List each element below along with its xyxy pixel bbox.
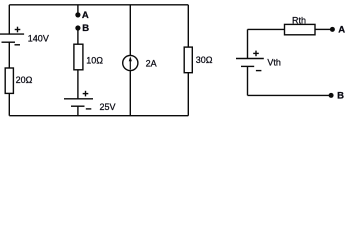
wire left branch upper (to 140V battery) <box>8 5 10 34</box>
wire bottom of main circuit <box>9 115 188 117</box>
battery V1 140V long plate <box>0 33 24 35</box>
wire stub node B to 10 ohm resistor <box>77 29 79 44</box>
svg-text:A: A <box>338 25 345 36</box>
wire thevenin top right to terminal A <box>315 28 331 30</box>
wire left branch lower (resistor to bottom) <box>8 93 10 115</box>
battery V2 25V long plate <box>64 98 93 100</box>
battery V1 plus sign <box>15 29 21 31</box>
svg-text:30Ω: 30Ω <box>196 55 213 65</box>
wire thevenin left (top corner to Vth) <box>247 29 249 58</box>
svg-text:Rth: Rth <box>292 15 306 25</box>
node A dot <box>75 12 80 17</box>
resistor 10 ohm body <box>74 44 83 70</box>
battery Vth plus sign <box>253 52 259 54</box>
svg-text:10Ω: 10Ω <box>86 56 103 66</box>
wire top of main circuit <box>9 4 188 6</box>
svg-text:A: A <box>82 10 89 21</box>
svg-text:140V: 140V <box>28 34 49 44</box>
terminal A dot <box>330 27 335 32</box>
svg-text:B: B <box>82 23 89 34</box>
resistor 20 ohm body <box>5 68 13 93</box>
wire thevenin left lower (Vth to bottom) <box>247 66 249 95</box>
svg-text:2A: 2A <box>146 58 157 68</box>
battery Vth short plate <box>241 65 254 67</box>
battery Vth long plate <box>236 58 264 60</box>
battery Vth minus sign <box>256 70 262 72</box>
resistor 30 ohm body <box>184 47 192 73</box>
resistor Rth body <box>285 24 316 34</box>
svg-text:Vth: Vth <box>267 58 281 68</box>
svg-text:B: B <box>337 91 344 102</box>
svg-text:20Ω: 20Ω <box>16 75 33 85</box>
wire left branch middle (battery to 20 ohm resistor) <box>8 42 10 68</box>
wire thevenin bottom to terminal B <box>248 94 330 96</box>
wire thevenin top left <box>248 28 285 30</box>
svg-text:25V: 25V <box>100 102 116 112</box>
current source I1 circle <box>123 55 138 70</box>
node B dot <box>75 25 80 30</box>
battery V1 minus sign <box>15 44 21 46</box>
wire 10 ohm resistor to 25V battery <box>77 70 79 99</box>
battery V2 25V short plate <box>71 105 85 107</box>
battery V2 plus sign <box>83 93 89 95</box>
current source I1 arrow <box>129 56 132 69</box>
wire right branch lower <box>187 73 189 116</box>
wire current source branch lower <box>129 71 131 116</box>
wire 25V battery to bottom <box>77 106 79 116</box>
battery V1 140V short plate <box>2 41 16 43</box>
battery V2 minus sign <box>86 108 92 110</box>
wire right branch upper <box>187 5 189 47</box>
wire current source branch upper <box>129 5 131 56</box>
wire stub to node A <box>77 5 79 14</box>
terminal B dot <box>329 93 334 98</box>
